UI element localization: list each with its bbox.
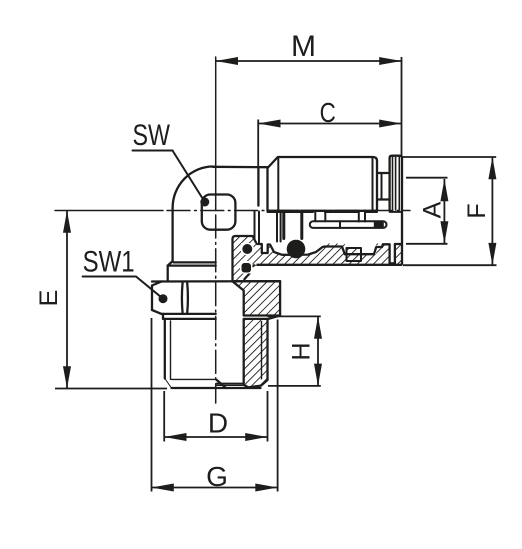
o-ring seal upper (black dot) [242, 244, 252, 254]
collet slot (white) [345, 243, 376, 255]
dimension C arrow right [379, 120, 401, 128]
dimension M arrow right [379, 57, 401, 65]
sleeve bottom edge at axis [268, 210, 378, 212]
o-ring groove notch upper (white) [241, 243, 254, 255]
sleeve chamfer edge line [277, 157, 279, 211]
hex top edge [152, 280, 280, 283]
hex bottom-left chamfer [152, 310, 162, 314]
dimension A arrow bottom [440, 221, 448, 243]
svg-text:G: G [206, 461, 228, 492]
cap ring line 2 [395, 156, 397, 210]
collet claw piece (hatched) [347, 248, 362, 261]
extension line right of D [267, 391, 269, 442]
elbow top edge [213, 166, 268, 169]
dimension E line [66, 211, 68, 389]
dimension M arrow left [216, 57, 238, 65]
washer face left edge [162, 314, 164, 319]
thread section (hatched, right half) [244, 319, 268, 388]
interior edge at axis 3 [365, 211, 377, 213]
stud bottom edge [172, 387, 261, 389]
dimension C line [258, 123, 401, 125]
svg-text:SW: SW [133, 118, 171, 152]
dimension A arrow top [440, 179, 448, 201]
elbow body outer corner arc [173, 167, 213, 209]
neck left edge [167, 266, 169, 282]
extension line bottom of F [403, 264, 497, 266]
cap ring line 1 [392, 156, 394, 210]
collet left piece line a [276, 212, 278, 242]
bar left cap inner line [314, 212, 316, 221]
collet finger line a [358, 212, 360, 222]
dimension C arrow left [258, 120, 280, 128]
dimension H line [317, 316, 319, 386]
bore exit line lower (sectioned) [216, 384, 244, 386]
leader SW diagonal [173, 151, 205, 203]
hex section (hatched, right half) [233, 281, 281, 315]
thread top edge (left half) [163, 318, 216, 320]
thread bottom chamfer left [165, 379, 172, 389]
hex facet line a [181, 283, 184, 314]
o-ring groove notch lower (white) [240, 261, 253, 274]
dimension H arrow top [314, 316, 322, 338]
neck lower line [377, 198, 390, 200]
thread root end line [172, 378, 216, 380]
svg-text:H: H [288, 342, 316, 360]
dimension H arrow bottom [314, 364, 322, 386]
hex left edge [151, 286, 153, 311]
inner sleeve step [324, 212, 326, 221]
collet finger line b [364, 212, 366, 222]
cap ring stack outline [390, 156, 402, 210]
hex facet line b [186, 283, 189, 314]
elbow bottom edge lower line [168, 264, 216, 266]
extension line top of F [402, 156, 496, 158]
svg-text:E: E [35, 290, 63, 307]
release sleeve outline [268, 157, 378, 211]
o-ring (black) [287, 240, 306, 259]
hex bottom edge (left half) [162, 313, 216, 315]
body cup front face line [257, 167, 259, 205]
cap right edge below axis [401, 210, 403, 244]
band base (hatched) [255, 244, 403, 265]
dimension G line [152, 487, 278, 489]
SW wrench-flat square marking [202, 195, 236, 230]
dimension G arrow right [255, 484, 277, 492]
hex top-left chamfer [152, 282, 162, 286]
cap ring line 3 [398, 156, 400, 210]
groove notch near wall (white) [262, 243, 268, 254]
cavity lip line b [258, 212, 260, 244]
dimension E arrow top [63, 211, 71, 233]
band right edge [401, 244, 403, 265]
dimension D line [164, 436, 267, 438]
interior edge at axis 1 [268, 211, 314, 213]
extension line right of G [277, 320, 279, 492]
neck upper line [377, 172, 390, 174]
neck groove line [381, 173, 383, 200]
svg-text:C: C [320, 98, 336, 129]
thread crest line left [164, 319, 166, 379]
dimension E arrow bottom [63, 366, 71, 388]
thread root line left [170, 321, 172, 379]
ring slot (white) [390, 243, 395, 263]
interior edge at axis right end [390, 211, 402, 213]
centerline vertical axis of threaded stud [215, 57, 217, 211]
o-ring seal lower (black dot) [242, 263, 252, 273]
bore exit line (sectioned) [216, 382, 244, 384]
extension line bottom of A [406, 243, 448, 245]
wall between vertical bore and cartridge cavity [233, 236, 257, 281]
bar black stop [374, 222, 384, 228]
interior edge at axis 2 [325, 211, 359, 213]
extension line bottom of H [268, 385, 321, 387]
elbow left edge [171, 208, 173, 261]
extension line top of A [406, 177, 448, 179]
extension line top of H [268, 315, 321, 317]
leader SW dot [200, 198, 209, 207]
elbow bottom-left chamfer [168, 261, 173, 266]
leader SW1 underline [83, 276, 136, 278]
dimension G arrow left [152, 484, 174, 492]
collet left piece line b [280, 212, 282, 242]
dimension M line [216, 60, 402, 62]
leader SW1 dot [159, 294, 168, 303]
svg-text:M: M [291, 30, 316, 63]
sleeve right inner line [372, 158, 374, 211]
leader SW1 diagonal [136, 277, 163, 299]
svg-text:D: D [208, 408, 228, 439]
dimension F line [491, 157, 493, 265]
hex-to-thread chamfer right [268, 316, 280, 319]
elbow bottom edge upper line [174, 261, 216, 263]
dimension F arrow bottom [488, 243, 496, 265]
band bottom edge [257, 264, 403, 266]
svg-text:F: F [463, 203, 491, 218]
dimension D arrow right [245, 433, 267, 441]
dimension F arrow top [488, 157, 496, 179]
extension line right of M and C [401, 57, 403, 157]
o-ring groove area (white) [268, 243, 323, 255]
extension line left of D [163, 391, 165, 442]
dimension A line [443, 179, 445, 244]
extension line left of C [257, 120, 259, 168]
band top profile outline [257, 244, 403, 263]
centerline horizontal axis of cartridge [55, 210, 163, 212]
dimension D arrow left [164, 433, 186, 441]
bar segment divider [339, 221, 341, 228]
tube support bar [310, 221, 387, 228]
svg-text:SW1: SW1 [83, 244, 135, 278]
extension line left of G [151, 318, 153, 492]
extension line bottom of E [55, 388, 167, 390]
svg-text:A: A [419, 201, 447, 218]
o-ring retainer left edge [282, 212, 285, 239]
leader SW underline [133, 150, 173, 152]
thread root line right (sectioned) [261, 321, 263, 379]
thread runout diagonal [217, 380, 227, 388]
o-ring retainer right edge [300, 212, 303, 239]
cavity lip line a [254, 212, 256, 244]
